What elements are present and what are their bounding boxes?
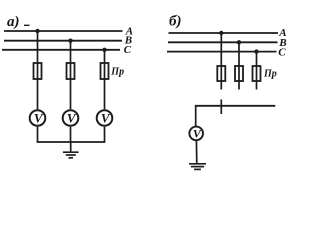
svg-text:V: V [34, 110, 44, 125]
svg-text:Пр: Пр [263, 69, 277, 80]
svg-text:V: V [67, 110, 77, 125]
svg-text:V: V [193, 127, 202, 141]
svg-text:V: V [101, 110, 111, 125]
svg-text:С: С [278, 46, 286, 58]
svg-text:С: С [124, 44, 132, 56]
svg-text:б): б) [169, 14, 181, 30]
svg-text:Пр: Пр [110, 67, 124, 78]
svg-text:а): а) [7, 14, 20, 30]
